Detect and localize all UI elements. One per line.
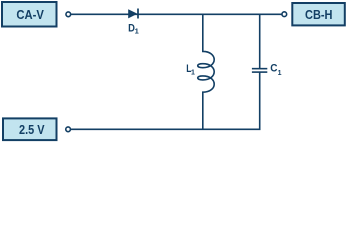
svg-text:1: 1 <box>135 27 139 36</box>
svg-text:CB-H: CB-H <box>305 8 333 22</box>
svg-text:C: C <box>270 62 277 74</box>
svg-text:1: 1 <box>278 70 282 77</box>
svg-text:1: 1 <box>191 69 195 76</box>
svg-text:2.5 V: 2.5 V <box>19 123 45 137</box>
svg-text:CA-V: CA-V <box>16 8 44 22</box>
